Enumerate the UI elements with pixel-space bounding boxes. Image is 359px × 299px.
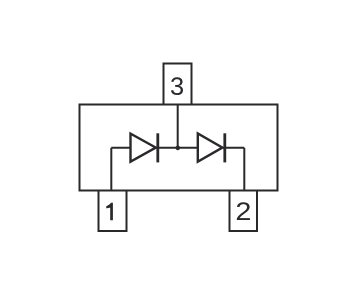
- svg-text:3: 3: [170, 73, 184, 101]
- svg-text:2: 2: [235, 198, 251, 226]
